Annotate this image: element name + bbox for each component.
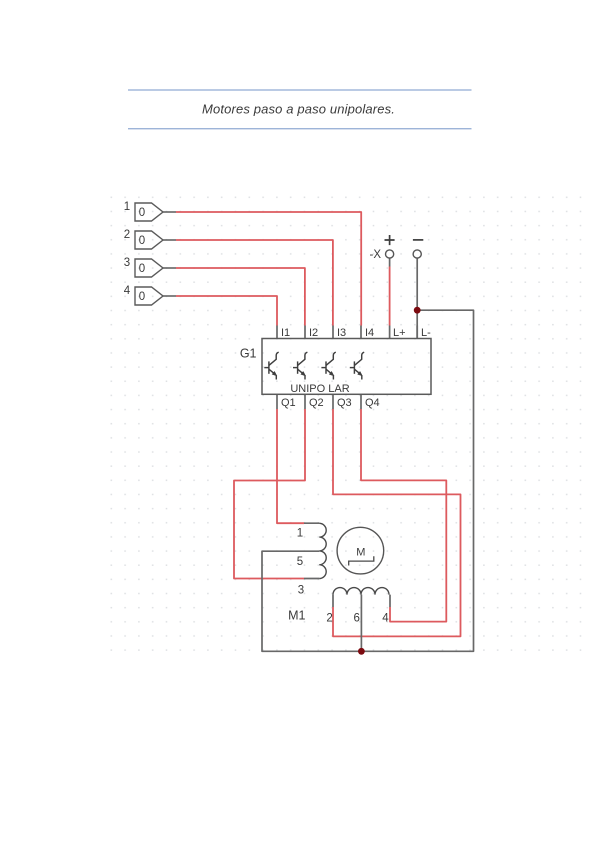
svg-text:M1: M1: [288, 609, 305, 623]
svg-text:6: 6: [353, 613, 359, 625]
svg-text:0: 0: [139, 235, 145, 247]
svg-text:M: M: [356, 547, 365, 559]
svg-text:I1: I1: [281, 327, 290, 339]
svg-text:4: 4: [382, 613, 389, 625]
svg-text:Q1: Q1: [281, 397, 296, 409]
svg-text:0: 0: [139, 207, 145, 219]
svg-text:Q4: Q4: [365, 397, 380, 409]
svg-text:I2: I2: [309, 327, 318, 339]
svg-text:Q2: Q2: [309, 397, 324, 409]
svg-text:0: 0: [139, 291, 145, 303]
svg-text:Motores paso a paso unipolares: Motores paso a paso unipolares.: [202, 102, 395, 117]
svg-text:3: 3: [298, 585, 304, 597]
svg-text:1: 1: [297, 528, 303, 540]
svg-text:1: 1: [124, 201, 130, 213]
svg-text:2: 2: [124, 229, 130, 241]
svg-text:4: 4: [124, 285, 131, 297]
svg-text:Q3: Q3: [337, 397, 352, 409]
svg-text:L+: L+: [393, 327, 406, 339]
svg-text:G1: G1: [240, 347, 257, 361]
svg-text:0: 0: [139, 263, 145, 275]
svg-text:L-: L-: [421, 327, 431, 339]
svg-text:2: 2: [326, 613, 332, 625]
svg-text:UNIPO LAR: UNIPO LAR: [290, 383, 349, 395]
svg-text:5: 5: [297, 556, 303, 568]
svg-text:-X: -X: [370, 249, 382, 261]
svg-text:3: 3: [124, 257, 130, 269]
svg-text:I3: I3: [337, 327, 346, 339]
svg-text:I4: I4: [365, 327, 374, 339]
